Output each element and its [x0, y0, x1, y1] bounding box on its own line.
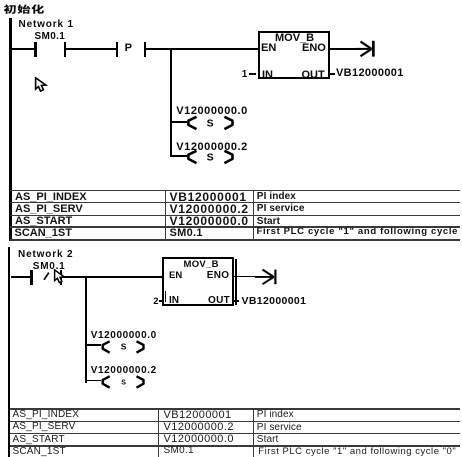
pin ENO (box 2)	[207, 270, 230, 281]
label SM0.1 (network 2 contact name)	[33, 261, 66, 272]
label SM0.1 (contact name)	[35, 31, 66, 42]
label Network 1	[19, 19, 74, 30]
wire stub: OUT to VB12000001	[330, 73, 336, 75]
operand V12000000.0 (set coil 1 label, network 2)	[91, 330, 157, 341]
constant 1 at IN (box 1)	[242, 69, 248, 80]
table 1 row SCAN_1ST	[15, 227, 72, 239]
operand VB12000001 (box 2 OUT)	[242, 295, 307, 307]
box 2 outer pin line (right)	[235, 259, 237, 306]
pin ENO (box 1)	[302, 42, 326, 54]
pin OUT (box 2)	[208, 295, 230, 306]
pin IN (box 1)	[262, 69, 273, 81]
wire stub to coil 1 (network 2)	[87, 344, 101, 346]
wire: SM0.1 to P contact	[66, 48, 117, 50]
operand V12000000.2 (set coil 2 label, network 2)	[91, 365, 157, 376]
NC contact left bar	[30, 270, 33, 285]
wire stub to coil 2 (network 2)	[87, 380, 101, 382]
table 1 bottom border	[10, 239, 460, 241]
wire: rail to NC contact	[11, 276, 30, 278]
wire: ENO output (network 2)	[234, 276, 258, 278]
left power rail (network 2)	[8, 247, 11, 457]
table 1 column line A	[165, 190, 167, 240]
mouse cursor 1	[34, 77, 50, 94]
constant 2 at IN (box 2)	[153, 296, 158, 307]
box MOV_B (network 1)	[258, 31, 330, 79]
table 2 row AS_PI_INDEX	[13, 409, 80, 421]
label MOV_B (box 2 title)	[184, 259, 219, 270]
title 初始化 (network title)	[0, 0, 50, 18]
table 2 row AS_PI_SERV	[13, 421, 76, 433]
table 1 row line	[10, 215, 460, 216]
wire stub to coil 1	[171, 121, 187, 123]
table 1 row AS_START	[15, 215, 72, 227]
table 2 row line	[10, 445, 460, 446]
pin EN (box 1)	[261, 42, 276, 54]
table 2 row line	[10, 433, 460, 434]
contact P left bar	[116, 42, 119, 57]
wire stub to coil 2	[171, 155, 187, 157]
open branch arrow (network 2)	[255, 266, 279, 288]
table 1 top border	[10, 190, 460, 191]
wire stub: 1 to IN	[249, 73, 256, 75]
wire: ENO output	[330, 48, 362, 50]
table 2 column line A	[158, 408, 160, 457]
set coil S (network 1, coil 2)	[184, 148, 238, 167]
pin OUT (box 1)	[302, 69, 325, 81]
open branch arrow (network 1)	[356, 38, 380, 60]
contact SM0.1 right bar	[64, 42, 67, 57]
table 2 row AS_START	[13, 434, 65, 446]
contact SM0.1 left bar	[34, 42, 37, 57]
wire: contact to MOV_B EN (network 2)	[62, 276, 163, 278]
table 2 row line	[10, 421, 460, 422]
pin IN (box 2)	[169, 295, 179, 306]
wire: P contact to MOV_B EN, passing branch node	[146, 48, 258, 50]
pin EN (box 2)	[169, 270, 182, 281]
operand V12000000.0 (set coil 1 label, network 1)	[176, 105, 248, 117]
wire stub: OUT to VB12000001 (box 2)	[234, 300, 239, 302]
left power rail (network 1)	[9, 18, 12, 241]
set coil S (network 2, coil 1)	[98, 338, 148, 357]
table 2 column line B	[253, 408, 255, 457]
operand VB12000001 (box 1 OUT)	[336, 67, 404, 79]
label MOV_B (box 1 title)	[275, 32, 314, 44]
branch wire down to set coils (network 1)	[170, 48, 173, 157]
box 2 IN pin tick	[165, 291, 167, 302]
svg-text:S: S	[121, 379, 126, 386]
svg-text:S: S	[121, 342, 127, 352]
NC contact right bar	[60, 270, 62, 285]
svg-text:S: S	[207, 117, 214, 129]
table 1 row AS_PI_SERV	[15, 203, 83, 215]
branch wire down to set coils (network 2)	[85, 276, 88, 383]
table 1 column line B	[253, 190, 255, 240]
NC contact slash	[42, 270, 52, 283]
box MOV_B (network 2)	[162, 257, 234, 306]
table 2 row SCAN_1ST	[13, 446, 66, 457]
wire stub: 2 to IN	[159, 300, 163, 302]
operand V12000000.2 (set coil 2 label, network 1)	[176, 141, 248, 153]
set coil S (network 2, coil 2)	[98, 373, 148, 392]
table 1 row line	[10, 202, 460, 203]
set coil S (network 1, coil 1)	[184, 114, 238, 133]
label P (positive edge)	[125, 42, 132, 54]
table 1 row line	[10, 226, 460, 227]
label Network 2	[18, 249, 73, 260]
wire: rail to contact SM0.1	[11, 48, 35, 50]
contact P right bar	[144, 42, 147, 57]
svg-text:S: S	[207, 151, 214, 163]
table 1 row AS_PI_INDEX	[15, 191, 87, 203]
mouse cursor 2	[53, 269, 69, 286]
table 2 top border	[10, 408, 460, 409]
